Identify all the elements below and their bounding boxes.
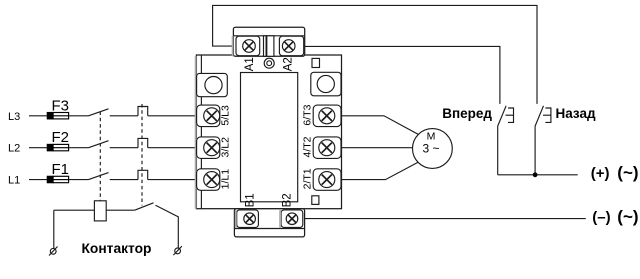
screw 3/L2 — [204, 140, 220, 156]
wire contact to overload (L3) — [110, 115, 138, 117]
screw 5/L3 — [204, 108, 220, 124]
wire aux contact down — [156, 205, 179, 248]
mechanical linkage (dashed, overload to aux contact) — [141, 104, 143, 206]
svg-text:3/L2: 3/L2 — [219, 137, 231, 158]
svg-text:В1: В1 — [244, 193, 256, 207]
thermal overload element (L1) — [138, 170, 148, 179]
device body outline — [196, 55, 341, 209]
screw A2 — [282, 40, 295, 53]
wire F1 to contact — [69, 179, 89, 181]
contactor main contact (L2) — [89, 141, 109, 148]
fuse F2 — [47, 144, 68, 150]
mechanical linkage (dashed, contacts to coil) — [99, 112, 101, 201]
wire overload to terminal 1/L1 — [148, 179, 197, 181]
wire 2/T1 to motor — [342, 162, 420, 180]
terminal 4/T2 — [313, 137, 341, 159]
svg-text:1/L1: 1/L1 — [219, 169, 231, 190]
top-right small square — [312, 58, 320, 67]
A2 screw square — [279, 36, 303, 56]
screw B1 — [244, 213, 256, 225]
svg-text:В2: В2 — [282, 193, 294, 207]
svg-text:F1: F1 — [52, 161, 70, 178]
screw 1/L1 — [204, 172, 220, 188]
wire overload to terminal 5/L3 — [148, 115, 197, 117]
A1 screw square — [236, 36, 260, 56]
terminal symbol right (circle-slash) — [173, 246, 182, 255]
svg-text:2/Т1: 2/Т1 — [302, 168, 314, 189]
B2 screw square — [281, 210, 303, 228]
screw 6/T3 — [319, 108, 335, 124]
wire A2 to Вперед button — [305, 46, 500, 104]
wire F2 to contact — [69, 147, 89, 149]
wire L1 to fuse F1 — [29, 179, 47, 181]
body left shadow — [195, 56, 197, 209]
indicator ring — [264, 58, 274, 68]
pushbutton Назад (SB2) — [535, 106, 551, 126]
wire 6/T3 to motor — [342, 116, 419, 135]
screw A1 — [243, 40, 256, 53]
svg-text:L1: L1 — [8, 175, 20, 187]
wire contact to overload (L1) — [110, 179, 138, 181]
svg-text:F3: F3 — [52, 97, 70, 114]
thermal overload element (L3) — [138, 107, 148, 116]
wire L3 to fuse F3 — [29, 115, 47, 117]
control wire left drop — [53, 210, 55, 248]
top block left shadow — [232, 36, 234, 56]
control wire left of coil — [54, 209, 95, 211]
fuse F3 — [47, 113, 68, 119]
svg-text:L2: L2 — [8, 143, 20, 155]
terminal 3/L2 — [197, 137, 220, 159]
(−) supply wire — [305, 218, 586, 220]
svg-text:5/L3: 5/L3 — [219, 105, 231, 126]
pushbutton Вперед (SB1) — [498, 106, 514, 126]
B1 square left shadow — [235, 210, 237, 227]
svg-text:3 ~: 3 ~ — [422, 142, 439, 156]
fuse F1 — [47, 176, 68, 182]
junction node — [533, 172, 538, 177]
control wire coil to aux contact — [106, 209, 135, 211]
bottom block ledge line — [234, 228, 304, 230]
bottom terminal block (B1 B2) — [234, 209, 304, 237]
device center face — [241, 73, 298, 202]
terminal 6/T3 — [313, 105, 341, 127]
wire L2 to fuse F2 — [29, 147, 47, 149]
contactor main contact (L3) — [89, 109, 109, 116]
svg-text:L3: L3 — [8, 111, 20, 123]
terminal 2/T1 — [313, 169, 341, 191]
svg-text:F2: F2 — [52, 129, 70, 146]
wire F3 to contact — [69, 115, 89, 117]
wire A1 loop to Назад button — [213, 5, 537, 104]
svg-text:A2: A2 — [283, 57, 295, 71]
top block clip slot bars — [264, 36, 267, 57]
screw 4/T2 — [319, 140, 335, 156]
contactor main contact (L1) — [89, 173, 109, 180]
svg-text:Назад: Назад — [556, 106, 596, 121]
wire overload to terminal 3/L2 — [148, 147, 197, 149]
screw 2/T1 — [319, 172, 335, 188]
terminal symbol left (circle-slash) — [49, 247, 58, 256]
thermal overload element (L2) — [138, 138, 148, 147]
svg-text:6/Т3: 6/Т3 — [302, 104, 314, 125]
(+) supply wire — [498, 174, 578, 176]
screw B2 — [286, 213, 298, 225]
motor M — [413, 129, 453, 169]
auxiliary contact — [135, 203, 154, 210]
svg-text:4/Т2: 4/Т2 — [302, 136, 314, 157]
wire 4/T2 to motor — [342, 147, 413, 149]
svg-text:A1: A1 — [244, 57, 256, 71]
svg-text:Контактор: Контактор — [82, 241, 152, 256]
wire Назад button down — [534, 126, 536, 175]
top-right mounting hole — [311, 72, 341, 96]
body left flange line — [200, 55, 202, 209]
bottom-right small square — [312, 196, 319, 205]
terminal 1/L1 — [197, 169, 220, 191]
contactor coil K — [94, 201, 106, 221]
top block lip line — [233, 35, 304, 37]
wire contact to overload (L2) — [110, 147, 138, 149]
B1 screw square — [237, 210, 259, 228]
wire Вперед button down — [497, 126, 499, 175]
top terminal block (A1 A2) — [233, 27, 304, 56]
terminal 5/L3 — [197, 105, 220, 127]
svg-text:Вперед: Вперед — [442, 106, 492, 121]
top-left mounting hole — [197, 73, 228, 96]
B2 square left shadow — [279, 210, 281, 227]
